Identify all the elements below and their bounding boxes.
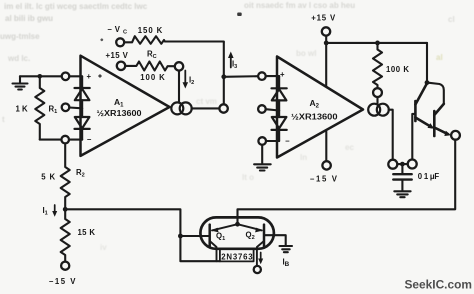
wire Q1 base (180, 235, 208, 237)
wire (266, 140, 279, 142)
wire A1 output (192, 107, 220, 109)
terminal IB (254, 266, 261, 273)
svg-text:+15 V: +15 V (106, 51, 129, 60)
wire A2 Vminus (325, 132, 327, 162)
svg-text:im el ilt. lc gti wceg saectlm: im el ilt. lc gti wceg saectlm cedtc lwc (4, 2, 148, 11)
wire (69, 139, 82, 141)
terminal -15V (left) (61, 262, 69, 270)
svg-text:wd lc.: wd lc. (7, 54, 30, 63)
Q1 emitter arrow (211, 228, 218, 233)
ground (A2 - input) (254, 145, 271, 171)
svg-text:cl: cl (448, 15, 455, 24)
current source A2 (368, 104, 389, 116)
svg-text:ct vm: ct vm (196, 97, 217, 106)
svg-text:ec: ec (345, 143, 354, 152)
svg-text:bo wl: bo wl (296, 49, 316, 58)
wire A2 Vplus (325, 43, 327, 86)
node A2 + feed junction (221, 74, 226, 79)
Q1 collector (210, 241, 217, 261)
Q2 emitter (238, 224, 262, 230)
terminal Rc end (175, 62, 183, 70)
diode D2 (A1 lower, cathode down) (75, 108, 90, 139)
node rail junction 100K (375, 41, 380, 46)
svg-text:ln: ln (300, 153, 307, 162)
node emitters junction (235, 222, 240, 227)
svg-text:½XR13600: ½XR13600 (291, 113, 338, 122)
oval 2N3763 (200, 217, 274, 248)
wire output down and along bottom (238, 140, 456, 225)
svg-text:al: al (436, 53, 443, 62)
arrow I3 (228, 52, 234, 68)
T1 emitter arrow (428, 123, 435, 129)
wire T1 base riser (412, 114, 415, 160)
resistor R1 (35, 76, 44, 139)
wire output riser A1 (223, 42, 225, 104)
wire (266, 109, 279, 110)
box 2N3763 (220, 250, 254, 262)
wire cap row (397, 163, 408, 165)
resistor 100K (A2 bias) (373, 43, 382, 88)
svg-text:15 K: 15 K (78, 228, 96, 237)
svg-text:1 K: 1 K (16, 105, 29, 114)
T2 emitter arrow (444, 131, 451, 136)
arrow I1 (52, 205, 57, 217)
transistor Q1 (208, 225, 211, 247)
capacitor 0.1uF (393, 166, 411, 190)
node + input A2 (258, 72, 266, 80)
wire +15V rail (326, 36, 427, 43)
transistor Q2 (263, 225, 266, 247)
arrow IB (258, 253, 263, 265)
scan speck (237, 13, 242, 17)
svg-text:uwg-tmlse: uwg-tmlse (0, 32, 40, 41)
transistor T2 (434, 104, 448, 136)
svg-text:oit nsaedc fm av l cso ab heu: oit nsaedc fm av l cso ab heu (244, 1, 355, 10)
svg-text:SeekIC.com: SeekIC.com (405, 278, 472, 292)
current source A1 (171, 102, 191, 114)
svg-text:lt o: lt o (242, 173, 254, 182)
svg-text:0 1 μF: 0 1 μF (418, 172, 440, 181)
diode D4 (A2 lower) (272, 111, 287, 142)
node - input A2 (258, 137, 266, 145)
svg-text:–15 V: –15 V (310, 175, 338, 184)
svg-text:2N3763: 2N3763 (221, 253, 253, 262)
svg-text:iv: iv (100, 243, 107, 252)
svg-text:–: – (285, 137, 290, 146)
wire (20, 75, 62, 77)
svg-text:½XR13600: ½XR13600 (97, 109, 143, 118)
terminal cap right (408, 160, 417, 169)
wire (40, 139, 62, 141)
transistor T1 (415, 83, 431, 127)
svg-text:–: – (87, 135, 92, 144)
node Q1 base junction (178, 234, 183, 239)
terminal +15V (A1 bias) (117, 62, 125, 70)
node + input A1 (62, 73, 70, 81)
wire bias drop A2 (376, 97, 378, 104)
Q1 emitter (212, 224, 238, 230)
resistor Rc 100K (125, 62, 175, 71)
resistor 15K (61, 209, 70, 261)
Q2 emitter arrow (255, 228, 262, 233)
ground (13, 76, 28, 89)
node diode bias A2 (258, 105, 266, 113)
terminal 100K end (373, 88, 382, 97)
terminal -Vc (116, 38, 124, 46)
terminal +15V (A2) (322, 27, 330, 35)
scan fleck (98, 74, 102, 78)
wire bias drop A1 (178, 71, 180, 103)
svg-text:100 K: 100 K (140, 73, 165, 82)
arrow I2 (183, 71, 189, 89)
svg-text:5 K: 5 K (41, 173, 55, 182)
node I1 junction (63, 207, 68, 212)
wire A2 output (389, 110, 393, 160)
terminal -15V (A2) (322, 161, 330, 169)
wire collector bend (427, 83, 444, 104)
svg-text:100 K: 100 K (386, 65, 409, 74)
resistor 150K (124, 36, 224, 44)
svg-text:–15 V: –15 V (49, 277, 76, 286)
terminal A1 output (219, 104, 227, 112)
wire (69, 75, 82, 77)
node diode bias A1 (62, 104, 70, 112)
diode D3 (A2 upper) (272, 76, 287, 110)
svg-text:+15 V: +15 V (311, 14, 336, 23)
scan fleck (100, 38, 104, 42)
op-amp A2 (277, 57, 363, 158)
op-amp A1 (81, 56, 170, 156)
node rail junction A2 supply (324, 41, 329, 46)
wire +15 drop to collectors (426, 43, 428, 83)
ground (Q2 base) (280, 246, 293, 252)
wire I1 run (65, 209, 220, 261)
svg-text:+: + (280, 70, 285, 79)
terminal output (451, 131, 460, 140)
resistor R2 (5K) (61, 143, 70, 209)
Q2 collector (257, 241, 264, 266)
wire (69, 106, 82, 109)
wire (266, 75, 279, 77)
ground (cap) (394, 191, 410, 197)
svg-text:150 K: 150 K (138, 26, 163, 35)
node - input A1 (61, 136, 69, 144)
node R1 top junction (38, 74, 43, 79)
terminal cap left (388, 160, 397, 169)
svg-text:t: t (2, 115, 5, 124)
svg-text:al bili ib gwu: al bili ib gwu (5, 14, 53, 23)
wire to A2 + input (224, 75, 258, 78)
node collector junction (425, 80, 430, 85)
wire Q2 base (264, 235, 286, 245)
diode D1 (A1 upper, cathode up) (75, 76, 90, 108)
svg-text:+: + (87, 72, 92, 81)
node cap junction (400, 162, 405, 167)
